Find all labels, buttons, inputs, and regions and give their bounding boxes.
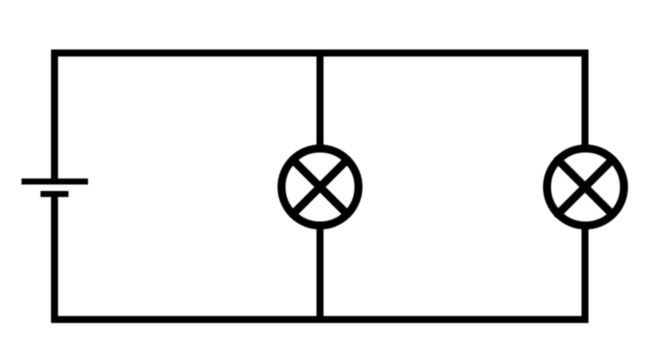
lamp L1 cross (293, 160, 347, 214)
lamp L1 circle (282, 149, 359, 226)
lamp L2 cross (558, 160, 612, 214)
battery cell B1 long plate (positive) (22, 179, 89, 185)
battery cell B1 short plate (negative) (41, 191, 69, 197)
wire middle branch bottom (317, 224, 324, 324)
wire bottom rail and side drops (55, 197, 586, 320)
wire top rail and side drops (55, 53, 586, 179)
wire middle branch top (317, 50, 324, 151)
lamp L2 circle (547, 149, 624, 226)
